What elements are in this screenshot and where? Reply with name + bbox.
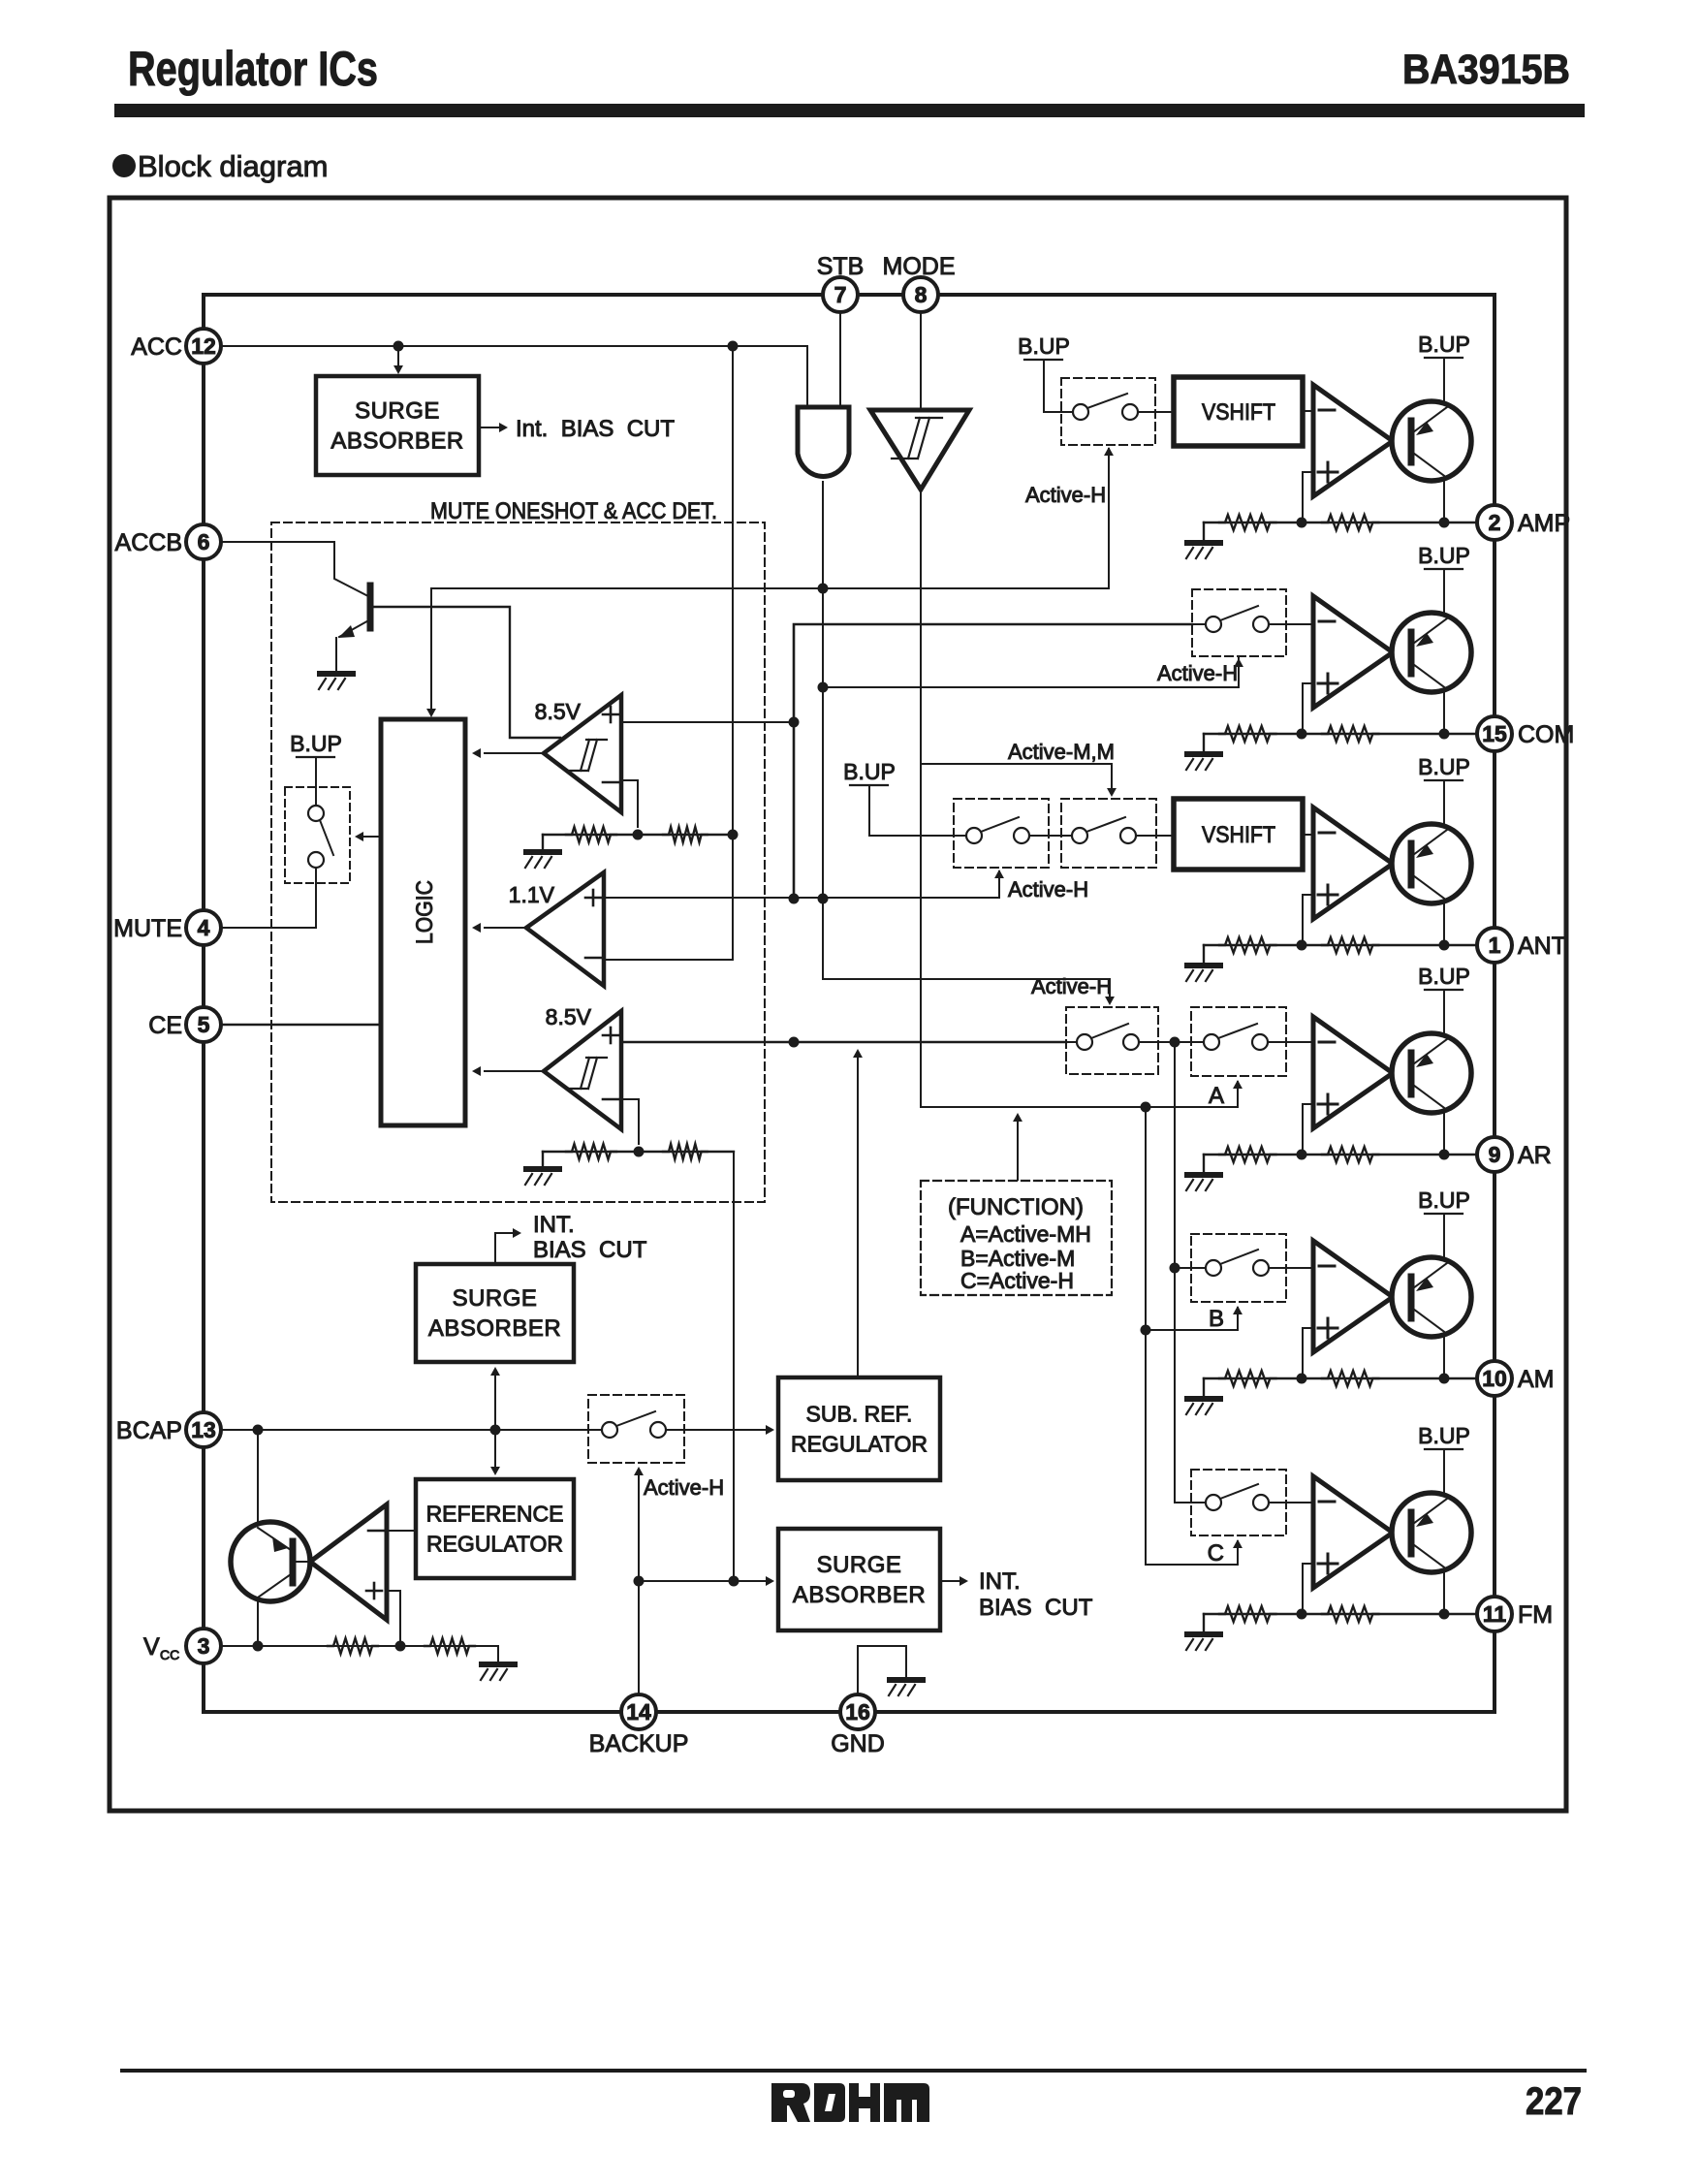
- op-amp U-AMP: [1313, 385, 1393, 496]
- wire B.UP to U-AMP transistor: [1443, 358, 1445, 404]
- net label B.UP (U-AM): [1418, 1187, 1470, 1214]
- svg-text:STB: STB: [817, 253, 865, 280]
- transistor U-AMP output PNP: [1392, 401, 1471, 481]
- resistor U-AMP R2: [1322, 515, 1378, 530]
- svg-text:ABSORBER: ABSORBER: [793, 1582, 926, 1608]
- wire backup surge row: [639, 1580, 770, 1582]
- svg-text:SURGE: SURGE: [453, 1285, 538, 1312]
- pin 11 FM: [1477, 1597, 1553, 1631]
- ground GND pin: [889, 1680, 923, 1695]
- wire CE pin to LOGIC: [221, 1024, 381, 1027]
- resistor U-FM R2: [1322, 1606, 1378, 1622]
- svg-text:REGULATOR: REGULATOR: [791, 1432, 928, 1457]
- MUTE ONESHOT & ACC DET. dashed box: [271, 522, 765, 1202]
- wire logic ctl y607: [431, 449, 1109, 588]
- svg-text:CE: CE: [148, 1012, 182, 1039]
- svg-text:14: 14: [626, 1699, 651, 1725]
- svg-text:15: 15: [1482, 721, 1507, 746]
- svg-text:MODE: MODE: [883, 253, 956, 280]
- wire sub ref regulator sense: [857, 1057, 859, 1377]
- svg-text:Active-H: Active-H: [1025, 483, 1106, 507]
- wire apex to pass transistor: [295, 1561, 310, 1563]
- wire FUNCTION box link: [1017, 1121, 1019, 1181]
- svg-text:227: 227: [1526, 2080, 1582, 2123]
- wire ACCB emitter to ground: [335, 638, 337, 671]
- block surge absorber 3: [778, 1529, 940, 1630]
- ground U-COM row: [1203, 734, 1205, 751]
- svg-text:Regulator ICs: Regulator ICs: [128, 42, 378, 96]
- pin 3 Vcc: [143, 1629, 221, 1663]
- resistor comparator1 Rb: [663, 827, 708, 842]
- ground Vcc divider: [497, 1646, 499, 1662]
- node U-AM emitter junction: [1439, 1374, 1450, 1384]
- svg-text:8.5V: 8.5V: [535, 699, 582, 724]
- node U-COM emitter junction: [1439, 729, 1450, 740]
- wire U-AR output row: [1204, 1154, 1477, 1155]
- svg-text:B.UP: B.UP: [1418, 1187, 1470, 1213]
- switch AMP backup contacts: [1061, 394, 1155, 420]
- switch ANT mode contacts: [1061, 817, 1156, 843]
- svg-text:7: 7: [834, 282, 847, 307]
- svg-text:BA3915B: BA3915B: [1402, 47, 1570, 93]
- ground U-FM row: [1203, 1614, 1205, 1631]
- svg-text:16: 16: [845, 1699, 870, 1725]
- switch mute hold (dashed box, vertical): [285, 787, 350, 883]
- svg-text:BACKUP: BACKUP: [589, 1730, 689, 1757]
- svg-text:Active-H: Active-H: [644, 1475, 724, 1500]
- svg-text:B.UP: B.UP: [290, 731, 342, 756]
- node U-AR feedback junction: [1297, 1150, 1307, 1160]
- comparator 1.1V: [526, 872, 604, 986]
- wire backup ctl: [638, 1470, 640, 1694]
- svg-text:B.UP: B.UP: [1418, 1423, 1470, 1448]
- svg-text:1: 1: [1489, 933, 1501, 958]
- wire signal bus x1212: [1174, 1042, 1176, 1503]
- resistor U-AM R1: [1219, 1371, 1275, 1386]
- ground comparator1 feedback: [542, 835, 544, 849]
- wire switch to sub ref regulator: [684, 1429, 770, 1431]
- wire U-AM transistor emitter to pin row: [1443, 1335, 1445, 1378]
- resistor Vcc Rb: [425, 1638, 475, 1654]
- resistor U-COM R2: [1322, 726, 1378, 742]
- label INT. BIAS CUT (logic): [495, 1233, 514, 1264]
- net label B.UP (U-COM): [1418, 543, 1470, 569]
- switch AR mode A contacts: [1191, 1024, 1286, 1050]
- comparator 8.5V (ACC): [544, 695, 621, 812]
- svg-text:B: B: [1209, 1306, 1224, 1332]
- switch AR enable A contacts: [1066, 1024, 1158, 1050]
- wire comparator 1.1V output to LOGIC: [485, 927, 526, 929]
- wire pin8 to schmitt: [920, 312, 922, 410]
- wire U-FM op-amp plus input: [1303, 1564, 1313, 1614]
- wire 1.1V plus / ANT ctl y927: [604, 871, 999, 898]
- wire GND pin to ground: [858, 1646, 906, 1694]
- net label B.UP (mute switch): [290, 731, 342, 757]
- switch AM mode B (dashed box): [1191, 1234, 1286, 1302]
- wire pin7 to AND gate: [839, 312, 841, 407]
- svg-text:REFERENCE: REFERENCE: [426, 1502, 564, 1527]
- op-amp U-ANT: [1313, 807, 1393, 919]
- wire COM input y644: [794, 624, 1192, 899]
- op-amp reference error amp: [310, 1504, 387, 1620]
- switch COM enable contacts: [1192, 606, 1286, 632]
- wire comparator1 minus to feedback: [621, 780, 638, 827]
- resistor comparator CE Rb: [663, 1144, 708, 1159]
- footer rule: [120, 2069, 1587, 2073]
- switch COM enable (dashed box): [1192, 589, 1286, 656]
- wire AR switches link: [1158, 1041, 1191, 1043]
- svg-text:MUTE: MUTE: [113, 915, 182, 942]
- node U-AMP feedback junction: [1297, 518, 1307, 528]
- transistor U-AR output PNP: [1392, 1033, 1471, 1113]
- net label B.UP (AMP switch): [1018, 333, 1070, 360]
- pin 15 COM: [1477, 716, 1574, 751]
- pin 16 GND: [831, 1694, 885, 1757]
- svg-text:CC: CC: [160, 1647, 179, 1662]
- wire switch to VSHIFT2: [1156, 835, 1174, 837]
- switch AM mode B contacts: [1191, 1250, 1286, 1276]
- svg-text:9: 9: [1489, 1142, 1501, 1167]
- block surge absorber 2: [416, 1264, 574, 1362]
- net label B.UP (ANT switch): [843, 759, 896, 785]
- svg-text:4: 4: [198, 915, 210, 940]
- wire AR switch ctl y1010: [823, 899, 1110, 1001]
- wire MUTE pin to switch: [221, 883, 316, 928]
- svg-text:Int. BIAS CUT: Int. BIAS CUT: [516, 416, 675, 442]
- svg-text:B.UP: B.UP: [1018, 333, 1070, 359]
- switch AMP backup (dashed box): [1061, 378, 1155, 445]
- node U-ANT emitter junction: [1439, 940, 1450, 951]
- svg-text:13: 13: [191, 1417, 216, 1442]
- switch backup enable (dashed box): [588, 1395, 684, 1463]
- resistor comparator CE Ra: [566, 1144, 616, 1159]
- wire B.UP to mute switch: [315, 757, 317, 787]
- wire surge2/refreg vertical: [494, 1371, 496, 1472]
- wire switch to AR op-amp: [1286, 1041, 1313, 1043]
- svg-text:BIAS CUT: BIAS CUT: [979, 1595, 1093, 1621]
- node U-FM emitter junction: [1439, 1609, 1450, 1620]
- wire surge3 output: [940, 1580, 961, 1582]
- IC boundary rectangle: [204, 295, 1494, 1712]
- wire B.UP to U-FM transistor: [1443, 1449, 1445, 1496]
- pin 8 MODE: [883, 253, 956, 312]
- header rule: [114, 104, 1585, 117]
- switch FM mode C contacts: [1191, 1484, 1286, 1510]
- node U-AMP emitter junction: [1439, 518, 1450, 528]
- wire FM row input: [1175, 1502, 1191, 1503]
- pin 6 ACCB: [115, 524, 221, 559]
- pin 7 STB: [817, 253, 865, 312]
- svg-text:REGULATOR: REGULATOR: [426, 1532, 563, 1557]
- svg-text:Active-H: Active-H: [1157, 661, 1238, 685]
- node ACC to comparator bus: [728, 341, 739, 352]
- svg-text:INT.: INT.: [533, 1212, 575, 1238]
- wire switch to AM op-amp: [1286, 1267, 1313, 1269]
- svg-text:ABSORBER: ABSORBER: [330, 428, 463, 455]
- svg-text:BIAS CUT: BIAS CUT: [533, 1237, 647, 1263]
- wire select bus x1182: [1145, 1107, 1147, 1565]
- switch AR mode A (dashed box): [1191, 1007, 1286, 1076]
- resistor U-ANT R1: [1219, 937, 1275, 953]
- svg-text:V: V: [143, 1633, 160, 1661]
- pin 9 AR: [1477, 1137, 1552, 1172]
- wire switch to VSHIFT1: [1155, 411, 1174, 413]
- svg-text:Active-H: Active-H: [1031, 974, 1112, 998]
- wire B.UP to AMP switch: [1044, 360, 1061, 412]
- resistor comparator1 Ra: [566, 827, 616, 842]
- svg-text:A: A: [1209, 1083, 1224, 1109]
- ground U-AM row: [1203, 1378, 1205, 1396]
- switch ANT backup (dashed box): [954, 799, 1049, 868]
- block LOGIC: [381, 719, 465, 1125]
- pin 2 AMP: [1477, 505, 1570, 540]
- wire VSHIFT2 to op-amp: [1303, 834, 1313, 836]
- wire 1.1V minus feedback: [604, 835, 733, 960]
- wire comparator1 output to LOGIC: [485, 752, 544, 754]
- svg-text:GND: GND: [831, 1730, 885, 1757]
- node U-COM feedback junction: [1297, 729, 1307, 740]
- switch ANT mode (dashed box): [1061, 799, 1156, 868]
- wire Vcc row: [221, 1645, 498, 1647]
- wire ref amp plus input: [387, 1591, 400, 1646]
- wire U-AR transistor emitter to pin row: [1443, 1111, 1445, 1155]
- switch backup enable contacts: [588, 1411, 684, 1438]
- svg-text:8.5V: 8.5V: [546, 1004, 592, 1029]
- wire mode select y1142: [921, 1082, 1238, 1107]
- svg-text:AMP: AMP: [1518, 510, 1570, 537]
- wire BCAP to Vcc link: [257, 1430, 259, 1646]
- wire U-FM transistor emitter to pin row: [1443, 1570, 1445, 1614]
- wire B.UP to U-AM transistor: [1443, 1214, 1445, 1260]
- svg-text:COM: COM: [1518, 721, 1574, 748]
- svg-text:SURGE: SURGE: [817, 1552, 902, 1578]
- net label B.UP (U-AR): [1418, 964, 1470, 990]
- transistor Q1 (ACC detect): [338, 586, 372, 638]
- wire B.UP to ANT switch: [869, 785, 954, 836]
- svg-text:B.UP: B.UP: [1418, 964, 1470, 989]
- wire AM row input: [1175, 1267, 1191, 1269]
- svg-text:ANT: ANT: [1518, 933, 1566, 960]
- ground U-AMP row: [1203, 522, 1205, 540]
- ground comparator CE feedback: [542, 1152, 544, 1166]
- wire comparator CE output to LOGIC: [485, 1070, 544, 1072]
- net label B.UP (U-AMP): [1418, 332, 1470, 358]
- transistor U-FM output PNP: [1392, 1493, 1471, 1572]
- feedback row comparator1: [543, 834, 733, 836]
- svg-text:C=Active-H: C=Active-H: [960, 1268, 1074, 1293]
- schmitt inverter (MODE): [870, 410, 969, 490]
- transistor U-ANT output PNP: [1392, 824, 1471, 903]
- svg-text:BCAP: BCAP: [116, 1417, 182, 1444]
- svg-text:VSHIFT: VSHIFT: [1202, 822, 1275, 848]
- node U-FM feedback junction: [1297, 1609, 1307, 1620]
- svg-text:11: 11: [1483, 1601, 1507, 1627]
- wire U-AMP output row: [1204, 522, 1477, 523]
- wire U-AM output row: [1204, 1377, 1477, 1379]
- wire comparator CE minus to feedback: [621, 1099, 639, 1144]
- resistor U-ANT R2: [1322, 937, 1378, 953]
- transistor Q2 (reference pass): [231, 1522, 310, 1601]
- svg-text:12: 12: [191, 333, 216, 359]
- wire U-AMP op-amp plus input: [1303, 472, 1313, 522]
- switch AR enable A (dashed box): [1066, 1007, 1158, 1074]
- svg-text:INT.: INT.: [979, 1568, 1021, 1595]
- wire switch to FM op-amp: [1286, 1502, 1313, 1503]
- node ACC to surge absorber: [393, 341, 404, 352]
- wire comparator1 plus input: [621, 721, 794, 723]
- wire ACC row: [221, 346, 807, 407]
- svg-text:Block diagram: Block diagram: [138, 149, 328, 183]
- wire surge absorber 1 output: [479, 427, 500, 428]
- wire B.UP to U-ANT transistor: [1443, 780, 1445, 827]
- resistor U-AR R2: [1322, 1147, 1378, 1162]
- ground ACCB emitter: [319, 674, 353, 689]
- wire CE comparator output y1075: [621, 1041, 1066, 1044]
- pin 1 ANT: [1477, 928, 1566, 963]
- svg-text:VSHIFT: VSHIFT: [1202, 399, 1275, 426]
- pin 10 AM: [1477, 1361, 1555, 1396]
- diagram outer frame: [110, 198, 1566, 1811]
- AND gate (STB &#215; ACC): [798, 407, 849, 476]
- wire LOGIC to mute switch: [358, 836, 381, 838]
- op-amp U-AR: [1313, 1017, 1393, 1128]
- svg-text:B.UP: B.UP: [1418, 543, 1470, 568]
- wire ref amp minus input: [387, 1530, 416, 1532]
- wire U-ANT transistor emitter to pin row: [1443, 902, 1445, 945]
- wire U-AR op-amp plus input: [1303, 1104, 1313, 1155]
- switch ANT backup contacts: [954, 817, 1049, 843]
- ground U-ANT row: [1203, 945, 1205, 963]
- resistor U-COM R1: [1219, 726, 1275, 742]
- svg-text:8: 8: [915, 282, 928, 307]
- wire mode bus x950: [920, 490, 922, 1107]
- resistor U-AMP R1: [1219, 515, 1275, 530]
- node U-AM feedback junction: [1297, 1374, 1307, 1384]
- svg-text:SURGE: SURGE: [355, 398, 440, 425]
- op-amp U-FM: [1313, 1476, 1393, 1588]
- section label Block diagram: [112, 149, 328, 183]
- wire U-COM op-amp plus input: [1303, 683, 1313, 734]
- svg-text:C: C: [1208, 1540, 1224, 1567]
- svg-text:2: 2: [1489, 510, 1501, 535]
- svg-text:LOGIC: LOGIC: [412, 880, 438, 944]
- svg-text:FM: FM: [1518, 1601, 1553, 1629]
- svg-text:(FUNCTION): (FUNCTION): [948, 1194, 1084, 1220]
- net label B.UP (U-ANT): [1418, 754, 1470, 780]
- transistor U-AM output PNP: [1392, 1257, 1471, 1337]
- svg-text:10: 10: [1482, 1366, 1507, 1391]
- svg-text:6: 6: [198, 529, 210, 554]
- svg-text:ACC: ACC: [131, 333, 182, 361]
- wire B.UP to U-AR transistor: [1443, 990, 1445, 1036]
- wire B select y1372: [1146, 1308, 1238, 1330]
- wire arrow into surge absorber 1: [397, 346, 399, 368]
- wire U-AM op-amp plus input: [1303, 1328, 1313, 1378]
- wire switch to COM op-amp: [1286, 623, 1313, 625]
- svg-text:B.UP: B.UP: [843, 759, 896, 784]
- wire ACC vertical bus x756: [732, 346, 734, 835]
- wire COM switch ctl y709: [823, 658, 1239, 687]
- wire U-ANT output row: [1204, 944, 1477, 946]
- pin 4 MUTE: [113, 910, 221, 945]
- block surge absorber 1: [316, 376, 479, 475]
- svg-text:SUB. REF.: SUB. REF.: [806, 1402, 913, 1427]
- node U-ANT feedback junction: [1297, 940, 1307, 951]
- pin 5 CE: [148, 1007, 221, 1042]
- svg-text:AR: AR: [1518, 1142, 1552, 1169]
- switch FM mode C (dashed box): [1191, 1470, 1286, 1535]
- wire U-AMP transistor emitter to pin row: [1443, 479, 1445, 522]
- block reference regulator: [416, 1479, 574, 1578]
- pin 13 BCAP: [116, 1412, 221, 1447]
- wire ANT switches link: [1049, 835, 1061, 837]
- svg-text:A=Active-MH: A=Active-MH: [960, 1221, 1091, 1247]
- wire U-FM output row: [1204, 1613, 1477, 1615]
- svg-text:ABSORBER: ABSORBER: [428, 1315, 561, 1342]
- block sub ref regulator: [778, 1377, 940, 1480]
- wire Active-M,M ctl y788: [921, 764, 1112, 793]
- wire AND output bus x849: [822, 482, 824, 899]
- block VSHIFT 1: [1174, 377, 1303, 446]
- svg-text:MUTE ONESHOT & ACC DET.: MUTE ONESHOT & ACC DET.: [430, 498, 717, 524]
- feedback row comparator CE: [543, 1151, 734, 1153]
- svg-text:B.UP: B.UP: [1418, 332, 1470, 357]
- block FUNCTION (dashed): [921, 1181, 1112, 1295]
- wire U-COM output row: [1204, 733, 1477, 735]
- wire BCAP row: [221, 1429, 588, 1431]
- svg-text:ACCB: ACCB: [115, 529, 182, 556]
- svg-text:B.UP: B.UP: [1418, 754, 1470, 779]
- wire ACCB input: [221, 542, 366, 595]
- ROHM logo: [771, 2083, 929, 2122]
- pin 12 ACC: [131, 329, 221, 364]
- svg-text:1.1V: 1.1V: [509, 882, 555, 907]
- resistor U-AM R2: [1322, 1371, 1378, 1386]
- wire arrow into LOGIC top: [430, 588, 432, 711]
- svg-text:3: 3: [198, 1633, 210, 1659]
- svg-text:AM: AM: [1518, 1366, 1555, 1393]
- svg-text:Active-H: Active-H: [1008, 877, 1088, 902]
- ground U-AR row: [1203, 1155, 1205, 1172]
- svg-text:5: 5: [198, 1012, 210, 1037]
- node U-AR emitter junction: [1439, 1150, 1450, 1160]
- wire CE feedback to surge bus: [733, 1152, 735, 1581]
- wire U-ANT op-amp plus input: [1303, 895, 1313, 945]
- wire C select y1614: [1146, 1541, 1238, 1565]
- pin 14 BACKUP: [589, 1694, 689, 1757]
- net label B.UP (U-FM): [1418, 1423, 1470, 1449]
- wire VSHIFT1 to op-amp: [1303, 410, 1313, 412]
- op-amp U-AM: [1313, 1241, 1393, 1352]
- wire B.UP to U-COM transistor: [1443, 569, 1445, 616]
- wire ACCB collector: [372, 607, 560, 738]
- wire U-COM transistor emitter to pin row: [1443, 690, 1445, 734]
- transistor U-COM output PNP: [1392, 613, 1471, 692]
- comparator 8.5V (CE): [544, 1011, 621, 1129]
- svg-text:Active-M,M: Active-M,M: [1008, 740, 1115, 764]
- block VSHIFT 2: [1174, 799, 1303, 870]
- resistor Vcc Ra: [328, 1638, 378, 1654]
- resistor U-FM R1: [1219, 1606, 1275, 1622]
- resistor U-AR R1: [1219, 1147, 1275, 1162]
- op-amp U-COM: [1313, 596, 1393, 708]
